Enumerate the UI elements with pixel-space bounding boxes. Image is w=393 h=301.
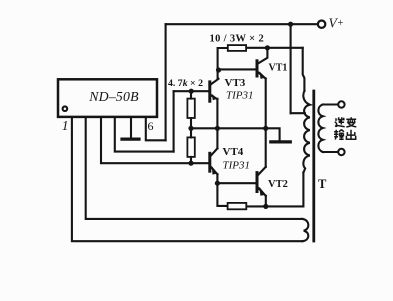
- wire top V+ rail: [166, 23, 318, 25]
- transistor VT2 collector: [259, 167, 266, 175]
- wire bottom node to primary winding bottom: [246, 173, 303, 207]
- svg-text:1: 1: [62, 118, 69, 133]
- wire secondary top lead: [323, 103, 338, 105]
- terminal secondary bottom circle: [338, 149, 344, 155]
- terminal V+ circle: [318, 21, 325, 28]
- transistor VT4 collector: [211, 148, 217, 155]
- ground bar right: [271, 140, 291, 143]
- transistor VT3 collector: [211, 79, 218, 84]
- node dot VT3 base / R2 top: [189, 89, 194, 94]
- node dot VT1 base / VT3 collector: [216, 67, 221, 72]
- node dot VT1 emitter rail crossing: [263, 126, 268, 131]
- terminal secondary top circle: [338, 101, 344, 107]
- node dot R1 right / VT1 collector: [265, 45, 270, 50]
- wire VT1 emitter to VT2 collector vertical: [265, 79, 267, 167]
- wire corner down to primary winding top: [303, 48, 305, 91]
- transformer T primary winding arcs: [303, 91, 309, 173]
- svg-text:ND–50B: ND–50B: [88, 89, 139, 104]
- transformer T secondary winding arcs: [318, 105, 322, 153]
- wire VT2 base wire: [217, 182, 255, 184]
- node dot VT2 emitter bottom node: [263, 204, 268, 209]
- transistor VT1 emitter: [259, 73, 266, 79]
- label Chinese char ni (逆): [335, 117, 345, 126]
- transistor VT1 collector: [259, 48, 268, 63]
- wire common rail VT3 emitter node: [191, 128, 280, 140]
- node dot VT3 emitter rail crossing: [215, 126, 220, 131]
- wire pin 2 loop to feedback winding top: [86, 117, 303, 219]
- arrow VT2 emitter: [259, 187, 266, 196]
- label Chinese char bian (变): [346, 117, 356, 127]
- node dot top rail tap: [288, 22, 293, 27]
- label Chinese char shu (输): [334, 130, 344, 140]
- svg-text:VT1: VT1: [269, 62, 288, 73]
- svg-text:TIP31: TIP31: [223, 159, 251, 171]
- svg-text:VT3: VT3: [225, 77, 246, 89]
- svg-text:10 / 3W × 2: 10 / 3W × 2: [210, 33, 265, 44]
- node dot R2/R3 junction common rail: [188, 126, 193, 131]
- label Chinese char chu (出): [346, 130, 355, 140]
- wire pin 3 to VT4 base: [101, 117, 208, 163]
- arrow VT4 emitter: [212, 166, 218, 175]
- wire VT3 emitter to VT4 collector vertical: [216, 99, 218, 149]
- svg-text:VT2: VT2: [268, 179, 288, 190]
- arrow VT1 emitter: [259, 71, 266, 79]
- transistor VT2 bar: [256, 173, 259, 192]
- wire pin 1 loop to feedback winding bottom: [72, 117, 303, 241]
- svg-text:6: 6: [148, 119, 154, 133]
- svg-text:V+: V+: [329, 16, 344, 31]
- svg-text:VT4: VT4: [223, 146, 244, 158]
- ground bar under IC: [122, 138, 139, 141]
- IC pin1 marker dot: [63, 106, 68, 111]
- node dot R3 bottom / VT4 base: [188, 161, 193, 166]
- resistor R3 leads: [190, 128, 192, 163]
- transistor VT4 emitter: [211, 168, 217, 175]
- arrow VT3 emitter: [212, 94, 218, 100]
- wire pin 4 to VT3 base vertical: [115, 117, 174, 152]
- wire VT2 emitter down: [265, 196, 267, 207]
- wire center tap horizontal into primary winding: [291, 112, 305, 114]
- wire secondary bottom lead: [323, 151, 338, 153]
- transistor VT3 bar: [208, 82, 211, 101]
- resistor R3 4.7k lower body: [187, 137, 194, 157]
- transistor VT4 bar: [208, 153, 211, 171]
- svg-text:T: T: [318, 177, 327, 191]
- resistor R2 leads: [190, 91, 192, 128]
- transformer T feedback winding arcs: [302, 219, 308, 241]
- IC U1 ND-50B box: [58, 79, 157, 117]
- ground stem under IC: [130, 117, 132, 138]
- wire left vertical from top rail down to pin6 wire: [165, 24, 167, 140]
- wire V+ tap vertical down to transformer center tap: [290, 24, 292, 113]
- wire pin 6 to left vertical: [146, 117, 166, 140]
- wire resistor right lead to corner: [246, 47, 303, 49]
- node dot VT4 emitter / VT2 base: [215, 181, 220, 186]
- svg-text:4. 7k × 2: 4. 7k × 2: [168, 78, 203, 89]
- wire VT3 base vertical down to pin4 wire: [173, 91, 175, 151]
- wire VT4 emitter down and to resistor R4: [217, 174, 227, 206]
- transistor VT1 bar: [256, 61, 259, 76]
- wire resistor left lead and VT3 collector line: [218, 48, 228, 79]
- transistor VT2 emitter: [259, 188, 266, 196]
- wire VT1 base wire: [219, 68, 256, 70]
- transformer T core: [312, 91, 315, 241]
- svg-text:TIP31: TIP31: [226, 90, 254, 102]
- wire VT3 base wire: [174, 90, 209, 92]
- resistor R2 4.7k upper body: [187, 99, 194, 118]
- resistor R4 bottom body: [228, 203, 247, 209]
- resistor R1 10/3W body: [228, 45, 246, 51]
- transistor VT3 emitter: [211, 96, 217, 100]
